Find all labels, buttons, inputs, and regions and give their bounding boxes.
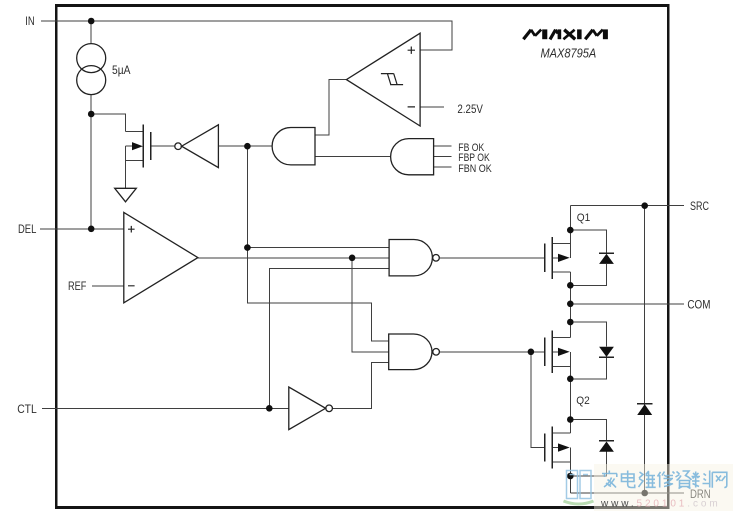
svg-text:2.25V: 2.25V [457,103,483,116]
svg-text:CTL: CTL [17,404,37,417]
svg-text:DEL: DEL [18,223,36,236]
svg-text:Q1: Q1 [577,211,591,223]
svg-text:COM: COM [687,299,710,312]
svg-text:MAX8795A: MAX8795A [541,46,597,61]
svg-text:FBN OK: FBN OK [458,163,492,175]
svg-text:Q2: Q2 [576,395,590,407]
svg-text:REF: REF [68,281,86,293]
svg-text:5µA: 5µA [112,64,131,77]
svg-text:SRC: SRC [690,201,709,213]
svg-text:www.520101.com: www.520101.com [600,499,721,510]
svg-text:IN: IN [25,15,34,28]
